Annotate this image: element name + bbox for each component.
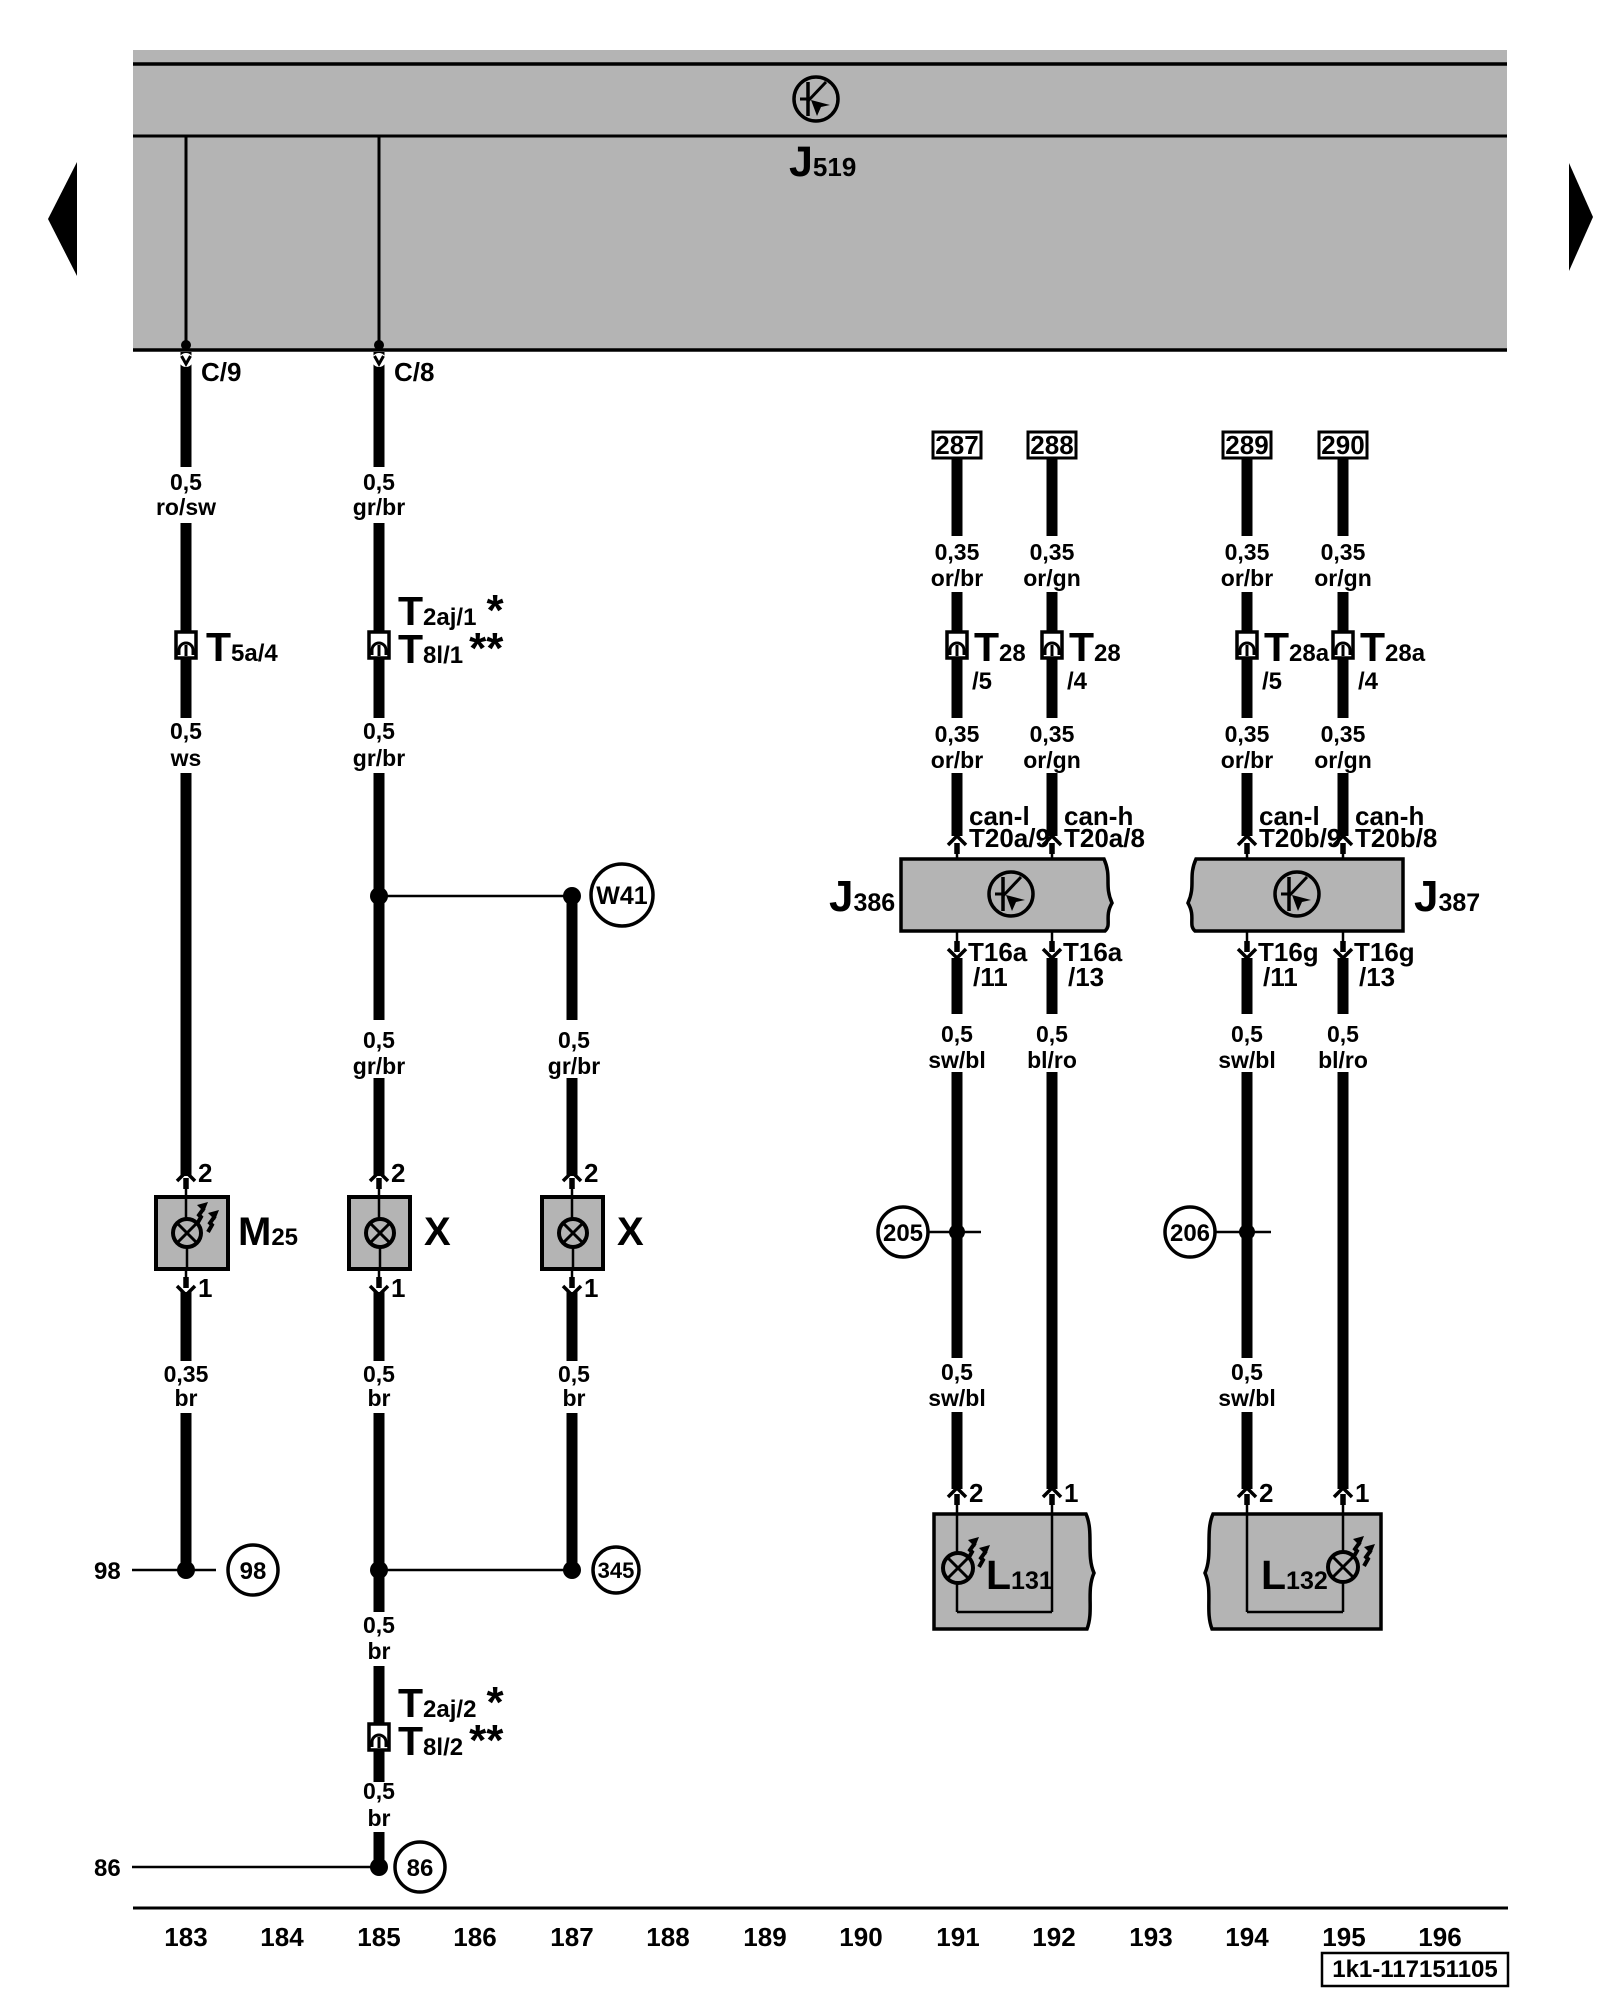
svg-text:T20b/9: T20b/9 [1259, 823, 1341, 853]
K diagnostic symbol of J386 [989, 872, 1033, 916]
svg-text:0,5: 0,5 [1036, 1021, 1068, 1047]
pin 2 of lamp X2 [563, 1158, 598, 1197]
terminal 287 [933, 430, 981, 460]
svg-text:X: X [424, 1210, 451, 1254]
svg-text:C/8: C/8 [394, 357, 434, 387]
ground row 98 [94, 1545, 278, 1595]
track numbers [164, 1922, 1461, 1952]
svg-text:1: 1 [1355, 1478, 1369, 1508]
junction dot wire2 at 345 line [370, 1561, 388, 1579]
svg-text:0,5: 0,5 [1231, 1021, 1263, 1047]
svg-text:0,5: 0,5 [558, 1027, 590, 1053]
svg-text:1: 1 [584, 1273, 598, 1303]
pin T20b/8 into J387 [1334, 836, 1352, 860]
svg-text:gr/br: gr/br [548, 1053, 600, 1079]
svg-text:0,35: 0,35 [1225, 721, 1270, 747]
svg-text:289: 289 [1225, 430, 1268, 460]
wire segment to W41 junction [374, 773, 385, 1020]
svg-text:T20a/8: T20a/8 [1064, 823, 1145, 853]
svg-text:193: 193 [1129, 1922, 1172, 1952]
control unit J387 [1188, 859, 1403, 931]
wire 0,5 ro/sw segment [181, 368, 192, 467]
svg-text:0,35: 0,35 [1321, 539, 1366, 565]
bottom track axis [133, 1907, 1508, 1910]
pin T20b/9 into J387 [1238, 836, 1256, 860]
pin C/8 socket symbol [372, 352, 386, 372]
pin T16g/11 out of J387 [1238, 931, 1256, 958]
wire4 0,35 or/br upper [952, 458, 963, 536]
node 206 junction [1165, 1207, 1271, 1257]
svg-text:/5: /5 [972, 668, 992, 695]
svg-text:191: 191 [936, 1922, 979, 1952]
ground row 86 [94, 1842, 445, 1892]
wire segment wire3 to lamp X2 [567, 1078, 578, 1176]
wire from J519 pin C/8 inside bar [374, 137, 384, 350]
connector T2aj/2 / T8l/2 [369, 1724, 389, 1750]
svg-text:or/gn: or/gn [1023, 565, 1081, 591]
wire segment wire2 to lamp X [374, 1078, 385, 1176]
svg-text:gr/br: gr/br [353, 1053, 405, 1079]
terminal 289 [1223, 430, 1271, 460]
svg-text:189: 189 [743, 1922, 786, 1952]
svg-text:288: 288 [1030, 430, 1073, 460]
wire from J519 pin C/9 inside bar [181, 137, 191, 350]
wire segment below M25 [181, 1292, 192, 1361]
svg-text:196: 196 [1418, 1922, 1461, 1952]
svg-text:86: 86 [94, 1855, 121, 1882]
svg-text:0,5: 0,5 [1231, 1359, 1263, 1385]
wire5 0,5 bl/ro [1047, 958, 1058, 1014]
svg-text:/11: /11 [973, 962, 1008, 992]
junction dot wire3 at 345 [563, 1561, 581, 1579]
connector T2aj/1 / T8l/1 [369, 632, 389, 658]
node 205 junction [878, 1207, 981, 1257]
lamp unit L132 [1205, 1514, 1381, 1629]
wire segment to T2aj/2 [374, 1666, 385, 1782]
wire 0,5 gr/br from C/8 [374, 368, 385, 467]
svg-text:or/gn: or/gn [1314, 747, 1372, 773]
control unit J386 [901, 859, 1112, 931]
wire segment wire3 to 345 [567, 1413, 578, 1570]
svg-text:98: 98 [240, 1558, 267, 1585]
svg-text:br: br [563, 1385, 586, 1411]
svg-text:0,5: 0,5 [170, 718, 202, 744]
pin 1 of L132 [1334, 1478, 1369, 1514]
svg-text:or/br: or/br [931, 747, 983, 773]
svg-text:X: X [617, 1210, 644, 1254]
svg-text:or/br: or/br [1221, 565, 1273, 591]
wire segment to ground 98 [181, 1413, 192, 1570]
svg-text:0,5: 0,5 [363, 1778, 395, 1804]
svg-text:/13: /13 [1359, 962, 1395, 992]
svg-text:2: 2 [584, 1158, 598, 1188]
pin T16a/13 out of J386 [1043, 931, 1061, 958]
svg-text:86: 86 [407, 1855, 434, 1882]
wire segment to ground 86 [374, 1832, 385, 1867]
svg-text:98: 98 [94, 1558, 121, 1585]
terminal 290 [1319, 430, 1367, 460]
svg-text:0,5: 0,5 [363, 1612, 395, 1638]
svg-text:0,5: 0,5 [363, 1361, 395, 1387]
wire to W41 [379, 895, 572, 898]
svg-text:184: 184 [260, 1922, 304, 1952]
connector T28/4 [1042, 632, 1062, 658]
svg-text:188: 188 [646, 1922, 689, 1952]
bulb X2 [542, 1197, 603, 1269]
svg-text:0,5: 0,5 [941, 1359, 973, 1385]
svg-text:0,35: 0,35 [1030, 721, 1075, 747]
svg-text:287: 287 [935, 430, 978, 460]
svg-text:bl/ro: bl/ro [1318, 1047, 1368, 1073]
connector T28a/4 [1333, 632, 1353, 658]
node W41 [563, 864, 653, 926]
wire 3 from W41 down [567, 896, 578, 1020]
page nav arrow right [1569, 163, 1593, 271]
svg-text:183: 183 [164, 1922, 207, 1952]
connector T5a/4 [176, 632, 196, 658]
K diagnostic symbol of J387 [1275, 872, 1319, 916]
svg-text:0,35: 0,35 [1225, 539, 1270, 565]
svg-text:ro/sw: ro/sw [156, 494, 216, 520]
svg-text:sw/bl: sw/bl [928, 1385, 986, 1411]
svg-text:0,35: 0,35 [935, 721, 980, 747]
wire4 0,5 sw/bl upper [952, 958, 963, 1014]
svg-text:gr/br: gr/br [353, 494, 405, 520]
pin C/9 socket symbol [179, 352, 193, 372]
svg-text:or/gn: or/gn [1023, 747, 1081, 773]
bulb M25 [156, 1197, 228, 1269]
pin 2 of lamp X1 [370, 1158, 405, 1197]
svg-text:T20b/8: T20b/8 [1355, 823, 1437, 853]
svg-text:0,35: 0,35 [1030, 539, 1075, 565]
svg-text:or/br: or/br [1221, 747, 1273, 773]
svg-text:br: br [175, 1385, 198, 1411]
svg-text:or/br: or/br [931, 565, 983, 591]
pin 1 of L131 [1043, 1478, 1078, 1514]
svg-text:0,5: 0,5 [363, 1027, 395, 1053]
svg-text:0,35: 0,35 [935, 539, 980, 565]
svg-text:/4: /4 [1067, 668, 1088, 695]
wire6 0,5 sw/bl upper [1242, 958, 1253, 1014]
svg-text:2: 2 [198, 1158, 212, 1188]
wire junction line to 345 [379, 1569, 572, 1572]
svg-text:1: 1 [391, 1273, 405, 1303]
svg-text:0,5: 0,5 [558, 1361, 590, 1387]
wire7 0,35 or/gn upper [1338, 458, 1349, 536]
svg-text:2: 2 [1259, 1478, 1273, 1508]
svg-text:/11: /11 [1263, 962, 1298, 992]
svg-text:/4: /4 [1358, 668, 1379, 695]
svg-text:/13: /13 [1068, 962, 1104, 992]
svg-text:sw/bl: sw/bl [1218, 1047, 1276, 1073]
svg-text:0,35: 0,35 [164, 1361, 209, 1387]
svg-text:1: 1 [1064, 1478, 1078, 1508]
svg-text:206: 206 [1170, 1220, 1210, 1247]
pin 2 of M25 [177, 1158, 212, 1197]
svg-text:186: 186 [453, 1922, 496, 1952]
lamp unit L131 [934, 1514, 1094, 1629]
svg-text:ws: ws [170, 745, 202, 771]
K diagnostic symbol of J519 [794, 77, 838, 121]
svg-text:0,5: 0,5 [941, 1021, 973, 1047]
svg-text:or/gn: or/gn [1314, 565, 1372, 591]
svg-text:W41: W41 [596, 882, 648, 910]
pin 2 of L131 [948, 1478, 983, 1514]
svg-text:1: 1 [198, 1273, 212, 1303]
svg-text:1k1-117151105: 1k1-117151105 [1332, 1956, 1498, 1983]
svg-text:/5: /5 [1262, 668, 1282, 695]
connector T28/5 [947, 632, 967, 658]
svg-text:194: 194 [1225, 1922, 1269, 1952]
svg-text:2: 2 [969, 1478, 983, 1508]
bulb symbol of L132 [1328, 1536, 1375, 1582]
node 345 [593, 1547, 639, 1593]
pin 1 of M25 [177, 1269, 212, 1303]
wire segment below X1 [374, 1292, 385, 1361]
svg-text:0,35: 0,35 [1321, 721, 1366, 747]
svg-text:bl/ro: bl/ro [1027, 1047, 1077, 1073]
svg-text:0,5: 0,5 [363, 469, 395, 495]
pin T20a/8 into J386 [1043, 836, 1061, 860]
wire segment to T5a [181, 523, 192, 718]
page nav arrow left [48, 162, 77, 276]
svg-text:0,5: 0,5 [363, 718, 395, 744]
svg-text:290: 290 [1321, 430, 1364, 460]
pin 1 of lamp X2 [563, 1269, 598, 1303]
svg-text:0,5: 0,5 [170, 469, 202, 495]
diagram number box 1k1-117151105 [1322, 1953, 1508, 1986]
svg-text:205: 205 [883, 1220, 923, 1247]
svg-text:185: 185 [357, 1922, 400, 1952]
wire6 0,35 or/br upper [1242, 458, 1253, 536]
control unit J519 bus bar [133, 50, 1507, 351]
bulb X1 [349, 1197, 410, 1269]
svg-text:345: 345 [598, 1558, 635, 1583]
wire segment through T connector [374, 523, 385, 718]
svg-text:187: 187 [550, 1922, 593, 1952]
pin 2 of L132 [1238, 1478, 1273, 1514]
svg-text:br: br [368, 1638, 391, 1664]
svg-text:192: 192 [1032, 1922, 1075, 1952]
svg-text:T20a/9: T20a/9 [969, 823, 1050, 853]
wire5 0,35 or/gn upper [1047, 458, 1058, 536]
svg-text:sw/bl: sw/bl [1218, 1385, 1276, 1411]
connector T28a/5 [1237, 632, 1257, 658]
svg-text:2: 2 [391, 1158, 405, 1188]
terminal 288 [1028, 430, 1076, 460]
wire segment to 345 junction [374, 1413, 385, 1612]
wire segment ws long [181, 773, 192, 1176]
junction dot wire2 at W41 line [370, 887, 388, 905]
pin T20a/9 into J386 [948, 836, 966, 860]
svg-text:sw/bl: sw/bl [928, 1047, 986, 1073]
pin 1 of lamp X1 [370, 1269, 405, 1303]
svg-text:190: 190 [839, 1922, 882, 1952]
pin T16g/13 out of J387 [1334, 931, 1352, 958]
svg-text:0,5: 0,5 [1327, 1021, 1359, 1047]
pin T16a/11 out of J386 [948, 931, 966, 958]
svg-text:C/9: C/9 [201, 357, 241, 387]
wire segment below X2 [567, 1292, 578, 1361]
svg-text:br: br [368, 1385, 391, 1411]
bulb symbol of L131 [943, 1537, 990, 1583]
svg-text:br: br [368, 1805, 391, 1831]
svg-text:gr/br: gr/br [353, 745, 405, 771]
wire7 0,5 bl/ro [1338, 958, 1349, 1014]
svg-text:195: 195 [1322, 1922, 1365, 1952]
